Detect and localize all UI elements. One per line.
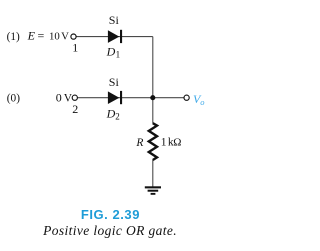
- diode D1: [108, 30, 122, 43]
- svg-text:D2: D2: [106, 107, 120, 122]
- svg-text:D1: D1: [106, 45, 121, 60]
- svg-text:0V: 0V: [56, 91, 73, 105]
- wire input 1 horizontal: [76, 36, 152, 38]
- svg-text:(0): (0): [7, 93, 20, 105]
- svg-text:(1): (1): [7, 31, 20, 43]
- svg-text:1: 1: [72, 41, 78, 55]
- svg-text:FIG. 2.39: FIG. 2.39: [81, 207, 140, 222]
- terminal 1 circle: [71, 34, 76, 39]
- svg-text:Si: Si: [109, 13, 120, 27]
- svg-text:Si: Si: [109, 75, 120, 89]
- svg-text:1kΩ: 1kΩ: [161, 136, 182, 148]
- wire input 2 horizontal to output: [78, 97, 184, 99]
- wire vertical right bus: [152, 37, 154, 124]
- ground: [145, 186, 161, 194]
- wire resistor to ground: [152, 160, 154, 187]
- terminal 2 circle: [72, 95, 77, 100]
- resistor R zigzag: [149, 123, 157, 160]
- svg-text:Positive logic OR gate.: Positive logic OR gate.: [42, 223, 177, 238]
- svg-text:R: R: [135, 137, 143, 149]
- output terminal circle: [184, 95, 189, 100]
- diode D2: [108, 91, 122, 104]
- svg-text:E=10V: E=10V: [27, 29, 70, 43]
- node junction dot: [150, 95, 155, 100]
- svg-text:Vo: Vo: [193, 92, 205, 107]
- svg-text:2: 2: [72, 102, 78, 116]
